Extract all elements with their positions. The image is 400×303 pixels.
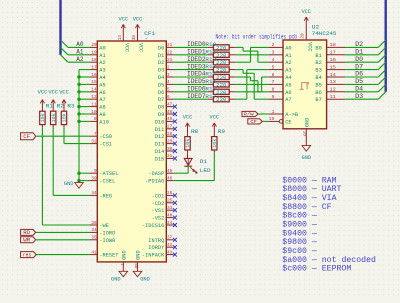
wire U2.B5 to bus (D5) <box>345 83 378 85</box>
U2 pin 2 (A0) <box>269 42 292 51</box>
svg-text:A1: A1 <box>99 52 106 59</box>
svg-text:D6: D6 <box>158 89 164 96</box>
svg-text:A0: A0 <box>99 44 105 51</box>
svg-text:3: 3 <box>167 72 170 78</box>
svg-text:D15: D15 <box>155 155 165 162</box>
bus entry D0 <box>378 55 385 62</box>
CF1 pin 49 (D10) <box>155 116 177 125</box>
wire U2.B2 to bus (D0) <box>345 61 378 63</box>
resistor R14 220 <box>205 71 235 81</box>
bus entry D4 <box>378 84 385 91</box>
wire IDED7 to U2.A3 <box>235 70 269 100</box>
net label A2 <box>76 56 84 63</box>
svg-text:R11: R11 <box>205 48 216 55</box>
svg-text:20: 20 <box>300 33 306 38</box>
svg-text:13: 13 <box>330 79 336 85</box>
wire D6 to R16 <box>174 91 208 93</box>
svg-text:15: 15 <box>330 64 336 70</box>
wire U2.B0 to bus (D2) <box>345 46 378 48</box>
svg-text:10k: 10k <box>52 113 57 122</box>
CF1 pin 45 (-DASP) <box>148 168 173 177</box>
svg-text:R2: R2 <box>57 102 64 109</box>
CF1 pin 20 (A0) <box>90 42 106 51</box>
bus entry D2 <box>378 40 385 47</box>
svg-text:D1: D1 <box>355 49 363 56</box>
net label D1 <box>355 49 363 56</box>
global label WR <box>21 237 36 244</box>
svg-text:B0: B0 <box>315 44 321 51</box>
CF1 pin 7 (-CS0) <box>90 131 112 140</box>
svg-text:18: 18 <box>330 42 336 48</box>
svg-text:D8: D8 <box>158 104 164 111</box>
svg-text:4: 4 <box>272 57 275 63</box>
svg-text:D5: D5 <box>158 81 164 88</box>
U2 pin 14 (B4) <box>315 72 345 81</box>
CF1 pin 3 (D4) <box>158 72 174 81</box>
svg-text:GND: GND <box>135 250 142 260</box>
svg-text:IDED7: IDED7 <box>187 93 206 100</box>
svg-text:220: 220 <box>216 60 226 66</box>
svg-text:10k: 10k <box>186 138 191 147</box>
net label IDED4 <box>187 71 206 78</box>
svg-text:B7: B7 <box>315 96 321 103</box>
note: bit order simplifies pcb <box>216 34 298 41</box>
CF1 pin 34 (-IORD) <box>90 227 116 236</box>
svg-text:10k: 10k <box>41 113 46 122</box>
svg-text:10k: 10k <box>213 138 218 147</box>
svg-text:27: 27 <box>167 124 172 130</box>
buffer U2 74HC245 body <box>283 40 327 129</box>
svg-text:-CS1: -CS1 <box>99 141 112 148</box>
svg-text:44: 44 <box>91 190 96 196</box>
svg-text:-IORD: -IORD <box>99 229 116 236</box>
wire IDED1 to U2.A1 <box>235 54 269 56</box>
CF1 pin 40 (-VS2) <box>152 212 177 221</box>
CF1 pin 8 (A10) <box>90 116 109 125</box>
svg-text:-VS2: -VS2 <box>152 215 165 222</box>
bus entry D7 <box>378 62 385 69</box>
wire U2.B3 to bus (D7) <box>345 68 378 70</box>
svg-text:B1: B1 <box>315 52 322 59</box>
U2 pin 20 (VCC) <box>300 32 314 52</box>
net label IDED7 <box>187 93 206 100</box>
svg-text:VCC: VCC <box>119 17 129 23</box>
CF1 pin 18 (A2) <box>90 57 106 66</box>
svg-text:A2: A2 <box>99 59 105 66</box>
wire U2.B1 to bus (D1) <box>345 54 378 56</box>
svg-text:R3: R3 <box>67 102 74 109</box>
wire WR to -IOWR <box>36 239 90 241</box>
svg-text:D13: D13 <box>155 141 165 148</box>
CF1 pin 21 (D0) <box>158 42 174 51</box>
resistor R16 220 <box>205 85 235 95</box>
value 74HC245 <box>312 30 337 37</box>
U2 pin 12 (B6) <box>315 87 345 96</box>
wire IDED3 to U2.A7 <box>235 70 269 100</box>
svg-text:B3: B3 <box>315 67 321 74</box>
svg-text:VCC: VCC <box>138 43 145 53</box>
svg-text:49: 49 <box>167 116 172 122</box>
svg-text:B6: B6 <box>315 89 321 96</box>
svg-text:7: 7 <box>94 131 97 137</box>
CF1 pin 29 (D13) <box>155 138 177 147</box>
CF1 pin 50 (GND) <box>133 250 142 270</box>
svg-text:220: 220 <box>216 45 226 51</box>
svg-text:VCC: VCC <box>306 42 313 52</box>
wire D3 to R13 <box>174 68 208 70</box>
svg-text:50: 50 <box>133 263 139 268</box>
svg-text:46: 46 <box>167 175 172 181</box>
svg-text:A->B: A->B <box>285 111 299 118</box>
svg-text:$8c00 —: $8c00 — <box>282 211 317 221</box>
U2 pin 19 (CE, active low) <box>269 116 293 125</box>
CF1 pin 26 (-CD1) <box>152 190 177 199</box>
net label D0 <box>355 56 363 63</box>
resistor R2 10k <box>51 102 64 127</box>
svg-text:D1: D1 <box>158 52 165 59</box>
svg-text:A3: A3 <box>99 67 105 74</box>
reference U2 <box>312 23 320 30</box>
svg-text:D1: D1 <box>200 158 208 165</box>
svg-text:VCC: VCC <box>183 115 193 121</box>
wire IDED0 to U2.A2 <box>235 47 269 62</box>
svg-text:A10: A10 <box>99 118 109 125</box>
svg-text:220: 220 <box>216 53 226 59</box>
net label D3 <box>355 93 363 100</box>
svg-text:GND: GND <box>64 181 74 187</box>
svg-text:R/W: R/W <box>244 112 254 118</box>
svg-text:19: 19 <box>269 116 275 122</box>
CF1 pin 25 (-CD2) <box>152 198 177 207</box>
svg-text:38: 38 <box>131 35 137 40</box>
svg-text:-CS0: -CS0 <box>99 133 112 140</box>
svg-text:INTRQ: INTRQ <box>148 237 165 244</box>
svg-text:D5: D5 <box>355 78 363 85</box>
CF1 pin 10 (A9) <box>90 109 106 118</box>
connector CF1 (CompactFlash) body <box>97 41 166 262</box>
svg-text:VCC: VCC <box>38 90 48 96</box>
svg-text:A3: A3 <box>285 67 291 74</box>
svg-text:A7: A7 <box>285 96 291 103</box>
svg-text:15: 15 <box>91 79 96 85</box>
svg-text:-ATSEL: -ATSEL <box>99 170 118 177</box>
CF1 pin 24 (-IDCS16) <box>142 220 177 229</box>
CF1 pin 13 (VCC) <box>117 34 130 53</box>
CF1 pin 22 (D1) <box>158 50 174 59</box>
svg-text:VCC: VCC <box>59 90 69 96</box>
svg-text:31: 31 <box>167 153 172 159</box>
reference CF1 <box>144 30 156 37</box>
resistor R3 10k <box>61 102 74 127</box>
svg-text:D6: D6 <box>355 71 363 78</box>
svg-text:WR: WR <box>23 238 30 244</box>
svg-text:16: 16 <box>91 72 96 78</box>
svg-text:23: 23 <box>167 57 172 63</box>
net label IDED2 <box>187 56 206 63</box>
svg-text:11: 11 <box>91 101 96 107</box>
svg-text:6: 6 <box>167 94 170 100</box>
global label CF <box>21 133 36 140</box>
bus entry A1 <box>61 47 68 54</box>
wire res to -RESET <box>36 254 90 256</box>
svg-text:-IDCS16: -IDCS16 <box>142 222 164 229</box>
U2 pin 16 (B2) <box>315 57 345 66</box>
net label A1 <box>76 49 84 56</box>
svg-text:IDED4: IDED4 <box>187 71 206 78</box>
svg-text:CE: CE <box>285 118 292 125</box>
svg-text:36: 36 <box>91 220 96 226</box>
svg-text:$a000 — not decoded: $a000 — not decoded <box>282 255 376 265</box>
global label RD <box>21 229 36 236</box>
svg-text:R8: R8 <box>191 128 198 135</box>
svg-text:A1: A1 <box>76 49 84 56</box>
svg-text:A6: A6 <box>99 89 105 96</box>
U2 pin 9 (A7) <box>269 94 292 103</box>
svg-text:$c000 — EEPROM: $c000 — EEPROM <box>282 264 351 274</box>
svg-text:-WE: -WE <box>99 222 109 229</box>
svg-text:U2: U2 <box>312 23 320 30</box>
CF1 pin 46 (-PDIAG) <box>145 175 174 184</box>
svg-text:GND: GND <box>302 155 312 161</box>
wire R3 to -CS1 <box>64 127 90 143</box>
svg-text:-RESET: -RESET <box>99 252 119 259</box>
svg-text:40: 40 <box>167 212 172 218</box>
svg-text:19: 19 <box>91 50 96 56</box>
power VCC for R1 <box>38 90 48 109</box>
svg-text:8: 8 <box>94 116 97 122</box>
svg-text:R17: R17 <box>205 93 216 100</box>
svg-text:1: 1 <box>272 109 275 115</box>
CF1 pin 43 (-INPACK) <box>142 249 177 258</box>
CF1 pin 32 (-CS1) <box>90 138 113 147</box>
wire LED to -DASP <box>174 166 189 173</box>
wire IDED2 to U2.A0 <box>235 47 269 62</box>
svg-text:D7: D7 <box>158 96 164 103</box>
resistor R10 220 <box>205 41 235 51</box>
global label res <box>21 252 37 259</box>
resistor R1 10k <box>40 102 54 127</box>
svg-text:8: 8 <box>272 87 275 93</box>
svg-text:1: 1 <box>119 263 125 266</box>
bus entry D3 <box>378 92 385 99</box>
svg-text:-PDIAG: -PDIAG <box>145 178 164 185</box>
svg-text:A4: A4 <box>99 74 106 81</box>
wire A1 to CF1 <box>68 54 90 56</box>
CF1 pin 44 (-REG) <box>90 190 112 199</box>
U2 pin 8 (A6) <box>269 87 292 96</box>
net label D6 <box>355 71 363 78</box>
svg-text:R9: R9 <box>218 128 225 135</box>
U2 pin 5 (A3) <box>269 64 292 73</box>
svg-text:20: 20 <box>91 42 96 48</box>
svg-text:R12: R12 <box>205 56 216 63</box>
wire IDED5 to U2.A5 <box>235 83 269 85</box>
svg-text:9: 9 <box>94 168 97 174</box>
svg-text:2: 2 <box>272 42 275 48</box>
U2 pin 1 (A->B) <box>269 109 299 118</box>
svg-text:43: 43 <box>167 249 172 255</box>
svg-text:B5: B5 <box>315 81 321 88</box>
svg-text:IDED0: IDED0 <box>187 41 206 48</box>
svg-text:D11: D11 <box>155 126 165 133</box>
svg-text:VCC: VCC <box>210 115 220 121</box>
svg-text:A2: A2 <box>76 56 84 63</box>
svg-text:GND: GND <box>140 277 150 283</box>
svg-text:39: 39 <box>91 175 96 181</box>
svg-text:A6: A6 <box>285 89 291 96</box>
wire D0 to R10 <box>174 46 208 48</box>
value "-" of CF1 <box>145 36 149 43</box>
svg-text:A0: A0 <box>285 44 291 51</box>
svg-text:VCC: VCC <box>302 9 312 15</box>
net label D7 <box>355 63 363 70</box>
svg-text:R16: R16 <box>205 85 216 92</box>
svg-text:7: 7 <box>272 79 275 85</box>
CF1 pin 31 (D15) <box>155 153 177 162</box>
CF1 pin 6 (D7) <box>158 94 174 103</box>
svg-text:D7: D7 <box>355 63 363 70</box>
svg-text:220: 220 <box>216 68 226 74</box>
svg-text:IDED3: IDED3 <box>187 63 206 70</box>
svg-text:D2: D2 <box>158 59 164 66</box>
svg-text:IORDY: IORDY <box>148 244 165 251</box>
CF1 pin 35 (-IOWR) <box>90 235 116 244</box>
U2 pin 11 (B7) <box>315 94 345 103</box>
wire CF to -CS0 <box>36 135 90 137</box>
svg-text:12: 12 <box>91 94 96 100</box>
net label IDED0 <box>187 41 206 48</box>
svg-text:13: 13 <box>117 35 123 40</box>
svg-text:33: 33 <box>167 205 172 211</box>
svg-text:-DASP: -DASP <box>148 170 164 177</box>
wire D1 to R11 <box>174 54 208 56</box>
CF1 pin 4 (D5) <box>158 79 174 88</box>
svg-text:12: 12 <box>330 87 336 93</box>
power VCC at CF1 pin 38 <box>133 17 143 34</box>
wire U2.B7 to bus (D3) <box>345 98 378 100</box>
svg-text:GND: GND <box>111 277 121 283</box>
svg-text:CF: CF <box>250 119 257 125</box>
svg-text:D4: D4 <box>158 74 165 81</box>
U2 pin 10 (GND) <box>301 117 310 144</box>
wire R2 to -REG <box>53 127 90 195</box>
svg-text:42: 42 <box>167 242 172 248</box>
bus entry D5 <box>378 77 385 84</box>
global label R/W <box>242 111 258 117</box>
wire U2.B4 to bus (D6) <box>345 76 378 78</box>
wire R9 to -PDIAG <box>174 153 215 181</box>
svg-text:IDED2: IDED2 <box>187 56 206 63</box>
wire D4 to R14 <box>174 76 208 78</box>
CF1 pin 48 (D9) <box>158 109 177 118</box>
resistor R17 220 <box>205 93 235 103</box>
svg-text:30: 30 <box>167 146 172 152</box>
wire D2 to R12 <box>174 61 208 63</box>
wire: ground net for A3-A10, -ATSEL, -CSEL <box>79 70 90 181</box>
svg-text:D2: D2 <box>355 41 363 48</box>
resistor R8 10k <box>185 128 198 153</box>
bus: address bus from CPU <box>58 0 63 55</box>
svg-text:A4: A4 <box>285 74 292 81</box>
svg-text:$9400 —: $9400 — <box>282 228 317 238</box>
svg-text:D12: D12 <box>155 133 165 140</box>
svg-text:22: 22 <box>167 50 172 56</box>
power VCC for R3 <box>59 90 69 109</box>
svg-text:IDED1: IDED1 <box>187 49 206 56</box>
svg-text:$0000 — RAM: $0000 — RAM <box>282 175 336 185</box>
svg-text:41: 41 <box>91 249 96 255</box>
svg-text:$9c00 —: $9c00 — <box>282 246 317 256</box>
wire IDED4 to U2.A6 <box>235 77 269 92</box>
wire R8 to LED D1 <box>187 153 189 158</box>
U2 pin 7 (A5) <box>269 79 292 88</box>
svg-text:D0: D0 <box>355 56 363 63</box>
CF1 pin 28 (D12) <box>155 131 177 140</box>
svg-text:220: 220 <box>216 75 226 81</box>
bus entry D1 <box>378 47 385 54</box>
svg-text:-CD2: -CD2 <box>152 200 165 207</box>
svg-text:D9: D9 <box>158 111 164 118</box>
wire CF to U2 CE <box>262 120 269 122</box>
svg-text:VCC: VCC <box>133 17 143 23</box>
svg-text:A2: A2 <box>285 59 291 66</box>
CF1 pin 5 (D6) <box>158 87 174 96</box>
CF1 pin 37 (INTRQ) <box>148 235 177 244</box>
svg-text:IDED5: IDED5 <box>187 78 206 85</box>
ground symbol at -CSEL <box>64 181 83 189</box>
svg-text:3: 3 <box>272 50 275 56</box>
CF1 pin 33 (-VS1) <box>152 205 177 214</box>
junction dots on ground net <box>77 75 80 182</box>
svg-text:-CSEL: -CSEL <box>99 178 115 185</box>
svg-text:10: 10 <box>91 109 96 115</box>
U2 pin 15 (B3) <box>315 64 345 73</box>
CF1 pin 41 (-RESET) <box>90 249 119 258</box>
CF1 pin 19 (A1) <box>90 50 106 59</box>
svg-text:$8800 — CF: $8800 — CF <box>282 202 331 212</box>
resistor R12 220 <box>205 56 235 66</box>
svg-text:A8: A8 <box>99 104 105 111</box>
svg-text:D3: D3 <box>158 67 164 74</box>
net label IDED3 <box>187 63 206 70</box>
svg-text:R15: R15 <box>205 78 216 85</box>
U2 pin 18 (B0) <box>315 42 345 51</box>
svg-text:10k: 10k <box>63 113 68 122</box>
svg-text:res: res <box>23 252 31 258</box>
svg-text:-REG: -REG <box>99 192 112 199</box>
svg-text:LED: LED <box>200 167 211 174</box>
power VCC for R8 <box>183 115 193 134</box>
wire R/W to U2 A->B <box>258 113 269 115</box>
CF1 pin 9 (-ATSEL) <box>90 168 119 177</box>
svg-text:GND: GND <box>120 250 127 260</box>
power VCC at CF1 pin 13 <box>119 17 129 34</box>
svg-text:A5: A5 <box>285 81 291 88</box>
svg-text:17: 17 <box>330 50 336 56</box>
svg-text:D14: D14 <box>155 148 165 155</box>
svg-text:$9000 —: $9000 — <box>282 219 317 229</box>
svg-text:74HC245: 74HC245 <box>312 30 337 37</box>
bus entry A2 <box>61 55 68 62</box>
note: memory map <box>282 175 376 273</box>
U2 pin 13 (B5) <box>315 79 345 88</box>
CF1 pin 16 (A4) <box>90 72 106 81</box>
net label IDED1 <box>187 49 206 56</box>
svg-text:35: 35 <box>91 235 96 241</box>
U2 pin 6 (A4) <box>269 72 292 81</box>
CF1 pin 17 (A3) <box>90 64 106 73</box>
svg-text:A0: A0 <box>76 41 84 48</box>
